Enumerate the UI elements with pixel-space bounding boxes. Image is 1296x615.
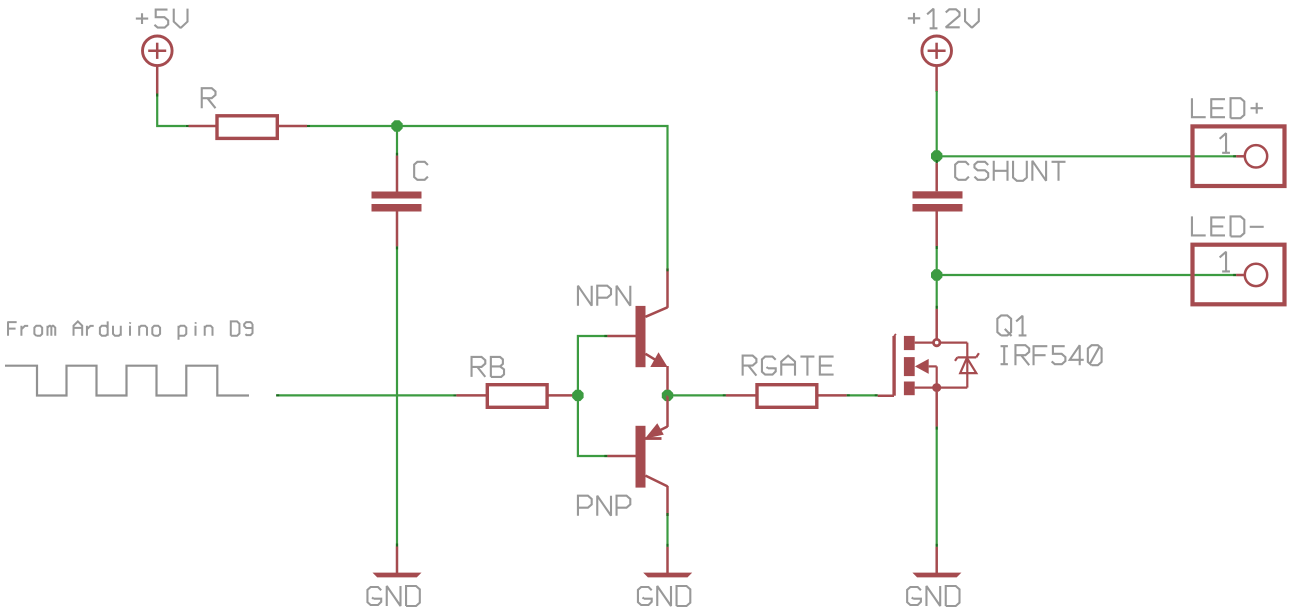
wire end ticks bbox=[276, 394, 279, 396]
pin RB.2 bbox=[548, 394, 578, 397]
label +5V bbox=[136, 9, 188, 28]
pin PNP base bbox=[607, 455, 635, 458]
wire C to GND1 bbox=[396, 246, 398, 546]
pin PNP collector bbox=[666, 486, 669, 516]
pin RB.1 bbox=[456, 394, 486, 397]
label 1 (LED+) bbox=[1220, 133, 1230, 153]
wire source to GND3 bbox=[936, 427, 938, 547]
label GND2 bbox=[638, 586, 690, 606]
label Q1 bbox=[997, 315, 1026, 336]
label IRF540 bbox=[1001, 345, 1102, 365]
pin NPN collector bbox=[666, 268, 669, 308]
junction LED- node bbox=[931, 269, 942, 280]
wire CSHUNT to LED- node bbox=[936, 246, 938, 275]
label C bbox=[414, 162, 428, 180]
resistor R bbox=[217, 116, 277, 139]
label R bbox=[202, 88, 216, 108]
wire top rail to NPN collector bbox=[310, 126, 668, 268]
pin RGATE.1 bbox=[726, 394, 756, 397]
wire junction to C bbox=[396, 126, 398, 156]
label GND1 bbox=[367, 586, 419, 606]
capacitor C bbox=[372, 192, 422, 212]
label LED+ bbox=[1192, 98, 1263, 118]
label LED- bbox=[1192, 216, 1264, 236]
wire LED+ node down to CSHUNT bbox=[936, 156, 938, 163]
resistor RB bbox=[487, 385, 547, 408]
wire input net bbox=[276, 394, 453, 396]
wire end tick bbox=[186, 125, 189, 127]
label GND3 bbox=[907, 586, 959, 606]
wire end ticks bbox=[847, 394, 850, 396]
pin CSHUNT.2 bbox=[935, 212, 938, 247]
pin Q1 drain up bbox=[935, 309, 938, 339]
pin LED- connector bbox=[1236, 274, 1244, 277]
wire +12V down bbox=[936, 91, 938, 156]
transistor NPN bbox=[636, 306, 668, 367]
label RB bbox=[472, 357, 504, 377]
body diode (zener) of Q1 bbox=[955, 353, 979, 373]
resistor RGATE bbox=[757, 385, 817, 408]
pin C.2 bbox=[396, 212, 399, 247]
label NPN bbox=[578, 286, 630, 306]
pin LED+ connector bbox=[1236, 155, 1244, 158]
label PNP bbox=[578, 496, 630, 516]
pin R.2 bbox=[279, 125, 308, 128]
wire drain to LED- node bbox=[936, 275, 938, 309]
pin Q1 source down bbox=[935, 392, 938, 427]
connector LED- bbox=[1193, 245, 1285, 305]
pin NPN emitter bbox=[666, 366, 669, 395]
label +12V bbox=[908, 8, 979, 28]
pin Q1 gate bbox=[878, 394, 894, 397]
wire emitter node to RGATE bbox=[668, 394, 726, 396]
square wave symbol bbox=[5, 366, 249, 396]
wire RGATE to gate bbox=[847, 394, 878, 396]
label 1 (LED-) bbox=[1220, 252, 1230, 272]
pin R.1 bbox=[189, 125, 217, 128]
ground GND1 bbox=[373, 547, 422, 578]
junction emitter node bbox=[662, 390, 673, 401]
wire PNP collector to GND2 bbox=[666, 516, 668, 547]
label CSHUNT bbox=[955, 161, 1065, 181]
label RGATE bbox=[743, 356, 834, 376]
power flag +5V bbox=[143, 36, 173, 94]
wire LED+ node to connector bbox=[937, 155, 1236, 157]
power flag +12V bbox=[922, 36, 952, 92]
pin NPN base bbox=[607, 335, 635, 338]
ground GND2 bbox=[643, 547, 692, 578]
pin CSHUNT.1 bbox=[935, 163, 938, 191]
junction base node bbox=[572, 390, 583, 401]
transistor PNP bbox=[636, 423, 668, 487]
wire end tick bbox=[1233, 274, 1236, 276]
ground GND3 bbox=[912, 547, 961, 578]
mosfet Q1 IRF540 bbox=[894, 334, 967, 396]
pin PNP emitter bbox=[666, 395, 669, 427]
junction LED+ node bbox=[931, 150, 942, 161]
pin RGATE.2 bbox=[818, 394, 847, 397]
wire end tick bbox=[1233, 155, 1236, 157]
wire LED- node to connector bbox=[937, 274, 1236, 276]
pin C.1 bbox=[396, 156, 399, 192]
pin circle LED+ 1 bbox=[1245, 145, 1267, 167]
label From Arduino pin D9 bbox=[8, 321, 253, 339]
pin circle LED- 1 bbox=[1245, 264, 1267, 286]
junction top rail / C bbox=[391, 120, 402, 131]
wire end tick bbox=[307, 125, 310, 127]
capacitor CSHUNT bbox=[913, 191, 963, 211]
wire base node to NPN/PNP bases bbox=[578, 336, 607, 456]
wire +5V to R bbox=[157, 94, 186, 127]
connector LED+ bbox=[1193, 126, 1285, 186]
wire end ticks (misc) bbox=[157, 94, 937, 547]
